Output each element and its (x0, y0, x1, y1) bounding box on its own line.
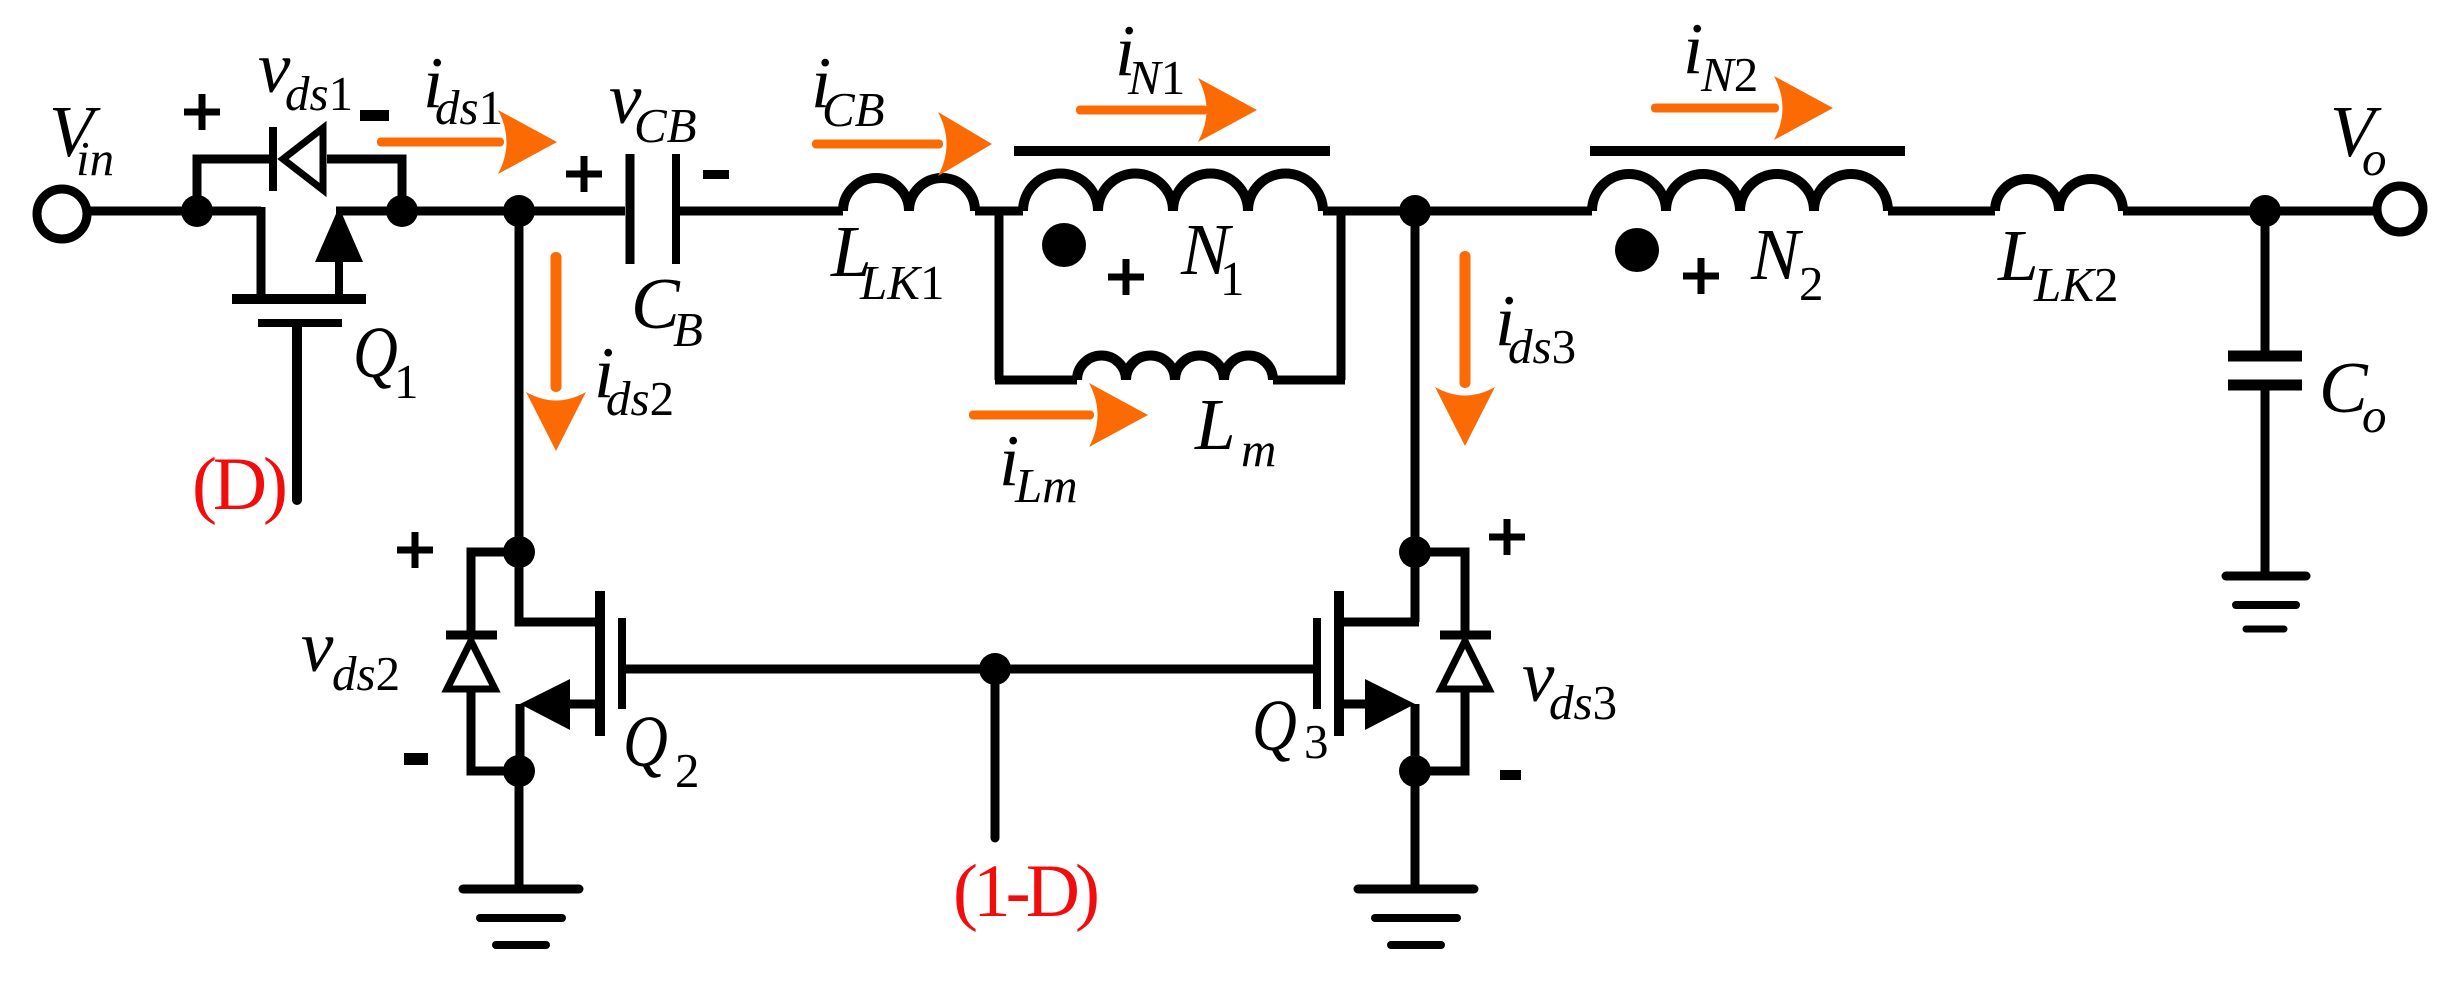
svg-text:in: in (76, 131, 114, 186)
svg-text:N2: N2 (1700, 47, 1758, 102)
svg-text:Q: Q (1252, 685, 1297, 766)
svg-text:(1-D): (1-D) (953, 850, 1100, 933)
svg-text:ds3: ds3 (1508, 319, 1576, 374)
svg-text:Lm: Lm (1014, 458, 1078, 513)
svg-text:(D): (D) (192, 443, 288, 526)
svg-text:CB: CB (634, 98, 697, 153)
svg-text:v: v (301, 606, 334, 687)
svg-text:N1: N1 (1127, 50, 1185, 105)
svg-text:3: 3 (1304, 714, 1329, 769)
svg-text:2: 2 (675, 743, 700, 798)
svg-text:L: L (1997, 215, 2039, 296)
svg-text:Q: Q (623, 701, 668, 782)
svg-text:LK1: LK1 (859, 255, 944, 310)
svg-text:o: o (2362, 388, 2387, 443)
svg-text:1: 1 (1220, 251, 1245, 306)
svg-text:CB: CB (822, 82, 885, 137)
svg-text:m: m (1241, 422, 1276, 477)
svg-text:Q: Q (353, 312, 398, 393)
svg-text:ds1: ds1 (285, 66, 353, 121)
svg-text:ds2: ds2 (332, 646, 400, 701)
svg-text:1: 1 (394, 354, 419, 409)
svg-text:ds1: ds1 (435, 80, 503, 135)
svg-text:o: o (2362, 131, 2387, 186)
svg-text:ds3: ds3 (1549, 675, 1617, 730)
svg-text:B: B (673, 302, 703, 357)
svg-text:L: L (1194, 384, 1236, 465)
svg-text:ds2: ds2 (606, 371, 674, 426)
svg-text:N: N (1750, 214, 1804, 295)
svg-text:2: 2 (1799, 256, 1824, 311)
svg-text:LK2: LK2 (2033, 257, 2118, 312)
